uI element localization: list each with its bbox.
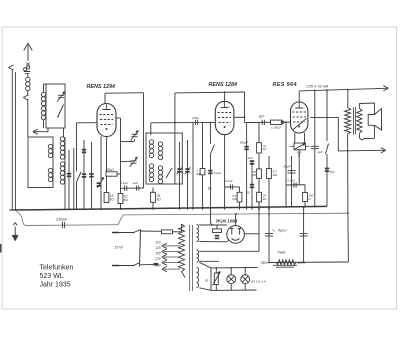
junction	[298, 206, 300, 208]
wire	[354, 107, 356, 135]
svg-text:(40µ): (40µ)	[192, 116, 199, 120]
wire	[199, 224, 227, 226]
wire	[211, 267, 258, 269]
coil L4b	[60, 162, 64, 166]
U4 anode 2	[238, 229, 241, 235]
resistor 2M	[200, 169, 205, 175]
wire	[162, 246, 167, 249]
wire	[164, 245, 180, 247]
wire	[306, 145, 310, 147]
junction	[304, 206, 306, 208]
coil L3a	[48, 144, 52, 148]
junction	[100, 208, 102, 210]
wire	[276, 266, 294, 268]
ballast resistor	[214, 273, 218, 285]
wire	[15, 223, 17, 226]
svg-text:2µF: 2µF	[258, 115, 266, 119]
capacitor 0,1uF	[208, 170, 212, 172]
wire	[162, 257, 167, 260]
wire	[294, 143, 305, 149]
junction	[143, 208, 145, 210]
junction	[216, 267, 218, 269]
capacitor	[89, 173, 93, 175]
wire	[192, 123, 194, 210]
switch blade	[326, 144, 329, 155]
junction	[347, 212, 349, 214]
resistor	[257, 169, 262, 179]
junction	[210, 122, 212, 124]
wire	[199, 260, 219, 262]
junction	[326, 89, 328, 91]
wire	[106, 104, 108, 110]
wire	[141, 230, 162, 232]
wire	[10, 209, 18, 211]
winding	[179, 224, 185, 272]
wire	[106, 176, 108, 193]
coil L4a	[60, 137, 64, 141]
wire	[263, 120, 265, 125]
resistor	[151, 192, 156, 202]
wire	[134, 139, 136, 142]
junction	[224, 91, 226, 93]
wire	[211, 289, 257, 291]
wire	[219, 122, 231, 124]
wire	[136, 186, 138, 191]
resistor	[237, 192, 242, 202]
junction	[76, 208, 78, 210]
resistor	[104, 193, 109, 203]
wire	[68, 150, 70, 210]
grid connector	[281, 121, 284, 124]
junction	[251, 206, 253, 208]
wire	[251, 160, 253, 210]
wire to rectifier filament	[258, 202, 260, 251]
wire	[197, 268, 199, 288]
wire	[76, 123, 78, 172]
svg-text:MΩ: MΩ	[273, 173, 278, 177]
junction	[73, 208, 75, 210]
svg-text:240: 240	[154, 264, 161, 268]
svg-text:220: 220	[154, 257, 161, 261]
wire	[120, 118, 122, 210]
hum potentiometer	[294, 143, 306, 150]
wire	[43, 120, 45, 128]
wire	[189, 225, 191, 291]
wire	[34, 131, 48, 133]
wire	[152, 202, 154, 210]
junction	[174, 122, 176, 124]
junction	[202, 207, 204, 209]
wire	[383, 88, 388, 91]
wire	[242, 276, 248, 282]
switch blade	[210, 145, 214, 155]
junction	[303, 207, 305, 209]
svg-text:350V: 350V	[261, 261, 270, 265]
wire	[152, 188, 154, 193]
trimmer arrow	[177, 167, 183, 175]
wire	[218, 117, 231, 119]
connector circle	[241, 275, 250, 284]
wire	[381, 148, 386, 151]
U4 filament	[232, 239, 240, 241]
wire	[228, 276, 234, 282]
IF transformer shield box	[146, 133, 182, 184]
junction	[91, 208, 93, 210]
junction	[230, 267, 232, 269]
wave switch	[77, 172, 82, 182]
wire	[14, 227, 16, 237]
wire	[202, 123, 204, 210]
IF coil b	[158, 142, 162, 146]
svg-text:8µF: 8µF	[278, 228, 285, 232]
band filter shield box	[28, 137, 53, 188]
resistor 30k	[106, 172, 117, 176]
junction	[314, 206, 316, 208]
wire	[83, 140, 85, 210]
wire	[11, 69, 13, 210]
wire	[117, 173, 121, 175]
wire	[326, 154, 328, 206]
junction	[285, 121, 287, 123]
svg-text:250µF: 250µF	[55, 216, 68, 221]
wire	[26, 63, 29, 66]
wire	[14, 72, 16, 210]
wire	[265, 233, 273, 235]
wire	[162, 267, 167, 270]
junction	[244, 267, 246, 269]
wire jog	[118, 215, 123, 225]
wire	[304, 133, 306, 143]
winding	[357, 108, 362, 133]
junction	[210, 207, 212, 209]
wire	[131, 131, 139, 141]
wire	[182, 272, 186, 278]
wire	[216, 225, 218, 229]
wire	[57, 92, 65, 102]
wire	[230, 284, 232, 291]
junction	[246, 206, 248, 208]
wire	[64, 137, 66, 210]
wire	[381, 150, 386, 153]
wire	[239, 187, 241, 192]
wire	[224, 101, 226, 107]
capacitor	[215, 235, 219, 237]
wire	[272, 230, 275, 232]
svg-text:125: 125	[155, 246, 161, 250]
svg-text:15 W: 15 W	[114, 246, 123, 250]
wire	[347, 90, 349, 108]
junction	[239, 207, 241, 209]
wire	[294, 133, 296, 143]
wire	[258, 123, 260, 210]
wire	[76, 182, 78, 210]
svg-text:150: 150	[155, 251, 161, 255]
wire	[23, 98, 28, 101]
junction	[152, 208, 154, 210]
wire	[164, 268, 180, 270]
svg-text:RENS 1284: RENS 1284	[209, 82, 237, 88]
wire	[300, 235, 308, 237]
wire	[112, 232, 134, 234]
svg-text:kΩ: kΩ	[124, 198, 129, 202]
wire	[140, 263, 154, 265]
wire	[227, 241, 229, 242]
wire	[303, 208, 305, 263]
capacitor	[185, 168, 189, 170]
wire box link	[63, 128, 65, 137]
wire	[112, 232, 119, 234]
wire	[293, 182, 295, 187]
wire	[374, 109, 381, 130]
switch bar	[140, 230, 141, 267]
wire	[58, 97, 64, 99]
wire	[298, 91, 300, 102]
wire	[91, 142, 93, 210]
wire	[293, 116, 306, 118]
svg-text:RES 964: RES 964	[273, 82, 297, 88]
switch blade	[166, 168, 172, 178]
resistor 1M	[271, 120, 283, 124]
wire	[181, 224, 183, 232]
wire	[27, 74, 29, 77]
wire	[337, 117, 339, 150]
svg-text:TA: TA	[207, 187, 212, 191]
wire	[197, 120, 199, 125]
wire	[33, 129, 38, 132]
wire	[135, 157, 138, 160]
wire	[77, 122, 98, 124]
wire	[131, 162, 137, 164]
svg-text:110: 110	[155, 240, 160, 244]
svg-text:260V: 260V	[297, 261, 307, 265]
wire	[268, 156, 270, 262]
wire	[47, 128, 49, 132]
capacitor	[82, 173, 86, 175]
wire	[194, 120, 196, 125]
wire	[162, 263, 167, 266]
svg-text:RGN 1064: RGN 1064	[216, 219, 238, 224]
wire	[199, 250, 259, 252]
wire	[104, 93, 106, 103]
wire	[43, 84, 45, 92]
wire	[151, 121, 215, 123]
wire	[244, 233, 259, 235]
junction	[235, 213, 237, 215]
HT line	[123, 213, 348, 215]
junction	[303, 213, 305, 215]
resistor	[267, 169, 272, 179]
junction	[314, 90, 316, 92]
wire	[284, 230, 287, 232]
wire	[347, 151, 349, 213]
wire L1 top	[105, 92, 144, 95]
wire	[288, 172, 296, 174]
wire	[131, 160, 137, 162]
svg-text:MΩ: MΩ	[196, 172, 201, 176]
wire	[292, 111, 306, 113]
wire	[136, 131, 139, 134]
wire	[27, 45, 29, 61]
wire coil lead	[150, 123, 152, 135]
wire	[143, 93, 145, 189]
junction	[258, 206, 260, 208]
junction	[268, 213, 270, 215]
junction	[106, 208, 108, 210]
wire	[178, 142, 180, 210]
wire	[44, 83, 47, 85]
wire	[221, 106, 229, 108]
coil	[41, 92, 45, 96]
switch blade	[134, 263, 140, 266]
wire	[290, 145, 295, 147]
wire	[138, 186, 140, 191]
svg-text:0,1µF: 0,1µF	[120, 181, 128, 185]
wire	[265, 235, 273, 237]
svg-text:50: 50	[205, 279, 209, 283]
wire	[314, 91, 316, 208]
wire	[101, 124, 113, 126]
capacitor	[177, 168, 181, 170]
coil shield box	[46, 84, 65, 128]
svg-text:Telefunken: Telefunken	[40, 265, 74, 272]
junction	[268, 262, 270, 264]
capacitor	[82, 149, 86, 151]
resistor 20k	[257, 192, 262, 202]
wire	[310, 116, 338, 118]
resistor 1k	[257, 143, 262, 153]
wire	[73, 148, 75, 210]
wire	[229, 184, 231, 189]
wire	[291, 156, 293, 207]
junction	[14, 209, 16, 211]
wire	[106, 136, 108, 172]
U4 output wire	[235, 214, 237, 226]
wire	[27, 99, 29, 137]
svg-text:0,1µF: 0,1µF	[288, 178, 296, 182]
junction	[244, 116, 246, 118]
wire	[245, 121, 291, 124]
field winding	[276, 260, 296, 265]
resistor	[118, 194, 123, 204]
wire	[225, 186, 240, 188]
wire	[224, 92, 226, 101]
wire	[261, 120, 263, 125]
tube U2 RENS 1284	[215, 101, 234, 134]
wire	[244, 268, 246, 275]
capacitor	[67, 173, 71, 175]
wire	[16, 212, 26, 226]
wire	[234, 116, 245, 118]
svg-text:523 WL: 523 WL	[40, 273, 64, 280]
junction	[133, 232, 135, 234]
wire	[353, 107, 355, 135]
trimmer arrow	[185, 167, 191, 175]
wire	[298, 102, 300, 108]
wire	[348, 149, 384, 152]
wire	[298, 150, 300, 185]
connector circle	[227, 275, 236, 284]
svg-text:(1 MΩ): (1 MΩ)	[271, 126, 280, 130]
IF coil a	[149, 140, 153, 144]
wire	[164, 251, 180, 253]
wire	[173, 231, 182, 233]
wire	[28, 43, 32, 51]
wire	[347, 134, 349, 151]
capacitor	[97, 182, 101, 184]
wire	[286, 184, 305, 186]
wire	[33, 132, 38, 135]
wire	[164, 262, 180, 264]
winding	[345, 107, 351, 134]
wire	[121, 141, 135, 143]
coil L3b	[48, 168, 52, 172]
wire	[213, 272, 221, 286]
wire	[358, 104, 360, 109]
wire	[132, 136, 138, 138]
wire	[318, 205, 327, 207]
wire	[358, 133, 360, 138]
wire	[112, 265, 134, 267]
wire	[303, 143, 306, 146]
wire	[23, 95, 28, 98]
svg-text:Gl: Gl	[247, 190, 250, 194]
wire	[246, 123, 248, 210]
wire	[112, 265, 119, 267]
tube U3 RES 964	[291, 102, 308, 133]
wire	[288, 170, 296, 172]
wire	[187, 140, 189, 210]
wire	[27, 224, 119, 227]
wire	[211, 209, 214, 225]
junction	[258, 213, 260, 215]
U4 anode 1	[230, 229, 233, 235]
junction	[291, 206, 293, 208]
wire	[130, 157, 138, 167]
wire	[116, 117, 121, 119]
wire	[218, 112, 232, 114]
wire	[215, 285, 217, 291]
wire	[24, 71, 30, 73]
wire	[210, 268, 212, 291]
wire	[162, 254, 167, 257]
wire	[383, 86, 388, 89]
junction	[106, 128, 108, 130]
junction	[179, 207, 181, 209]
wire	[209, 123, 211, 145]
connector circle	[24, 68, 27, 71]
junction	[258, 208, 260, 210]
connector circle	[27, 66, 30, 69]
svg-text:235 V 33 mA: 235 V 33 mA	[306, 85, 329, 89]
wire	[101, 178, 104, 181]
tube U4 RGN 1064	[227, 226, 245, 244]
wire	[239, 202, 241, 210]
wire	[13, 223, 15, 226]
junction	[303, 261, 305, 263]
scan artifact mark at left edge	[0, 244, 2, 253]
wire	[103, 109, 111, 111]
wire	[242, 276, 248, 282]
junction	[268, 206, 270, 208]
wire	[100, 114, 114, 116]
wire	[162, 260, 167, 263]
wire	[295, 182, 297, 187]
wire	[232, 184, 234, 189]
junction	[298, 126, 300, 128]
switch blade	[134, 230, 141, 233]
switch blade in box	[58, 105, 64, 117]
junction	[192, 207, 194, 209]
